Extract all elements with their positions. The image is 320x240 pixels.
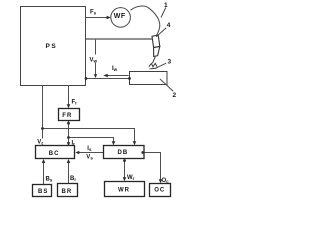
svg-text:BR: BR bbox=[62, 189, 73, 195]
junction dot Iw at workpiece bbox=[128, 77, 131, 80]
arrowhead Oc into OC bbox=[159, 179, 163, 183]
arrowhead Vw down bbox=[94, 74, 97, 78]
leader line 2 bbox=[160, 79, 173, 91]
box OC bbox=[150, 184, 171, 197]
wire Oc: DB to OC bbox=[144, 153, 161, 181]
svg-text:BS: BS bbox=[38, 189, 48, 195]
box BC bbox=[36, 146, 75, 159]
svg-text:Fr: Fr bbox=[72, 100, 78, 106]
svg-text:3: 3 bbox=[168, 59, 172, 66]
svg-text:DB: DB bbox=[118, 150, 129, 156]
svg-text:Vs: Vs bbox=[86, 154, 93, 160]
svg-text:Iw: Iw bbox=[112, 66, 118, 72]
wire feeder WF bbox=[111, 8, 131, 28]
svg-text:FR: FR bbox=[62, 113, 72, 119]
wire Wr: DB to WR bbox=[124, 159, 126, 179]
torch 4 bbox=[152, 35, 160, 57]
svg-text:Vw: Vw bbox=[90, 58, 98, 64]
leader line 3 bbox=[155, 63, 166, 68]
svg-text:Ir: Ir bbox=[72, 141, 76, 147]
signal label Vw bbox=[89, 55, 101, 64]
wire conduit from WF to torch bbox=[131, 6, 160, 37]
wire Vr from PS bottom to BC bbox=[42, 85, 44, 144]
electrode wire stub bbox=[152, 57, 155, 64]
wire Fr from PS bottom to FR bbox=[68, 85, 70, 105]
leader line 4 bbox=[156, 28, 166, 37]
bus upper: Vr to DB bbox=[43, 129, 135, 143]
svg-text:Oc: Oc bbox=[162, 178, 170, 184]
wire Fs: PS to WF bbox=[86, 17, 108, 19]
box DB bbox=[104, 146, 145, 159]
arrowhead Ir into BC bbox=[67, 142, 71, 146]
svg-text:2: 2 bbox=[173, 92, 177, 99]
svg-text:WR: WR bbox=[118, 188, 130, 194]
svg-text:Fs: Fs bbox=[90, 10, 97, 16]
junction dot Ir bus bbox=[67, 136, 70, 139]
arrowhead bus upper into DB bbox=[133, 141, 137, 145]
svg-text:Vr: Vr bbox=[37, 140, 43, 146]
wire Ir from FR to BC bbox=[68, 121, 70, 145]
svg-text:4: 4 bbox=[167, 22, 171, 29]
svg-text:1: 1 bbox=[164, 2, 168, 9]
junction dot Vr bus bbox=[41, 127, 44, 130]
signal label Vr bbox=[37, 139, 47, 146]
electrode voltage wire PS to torch bbox=[86, 38, 152, 40]
svg-text:BC: BC bbox=[49, 151, 60, 157]
current return wire Iw bbox=[86, 78, 130, 80]
arrowhead Iw direction left bbox=[103, 74, 108, 77]
junction dot Wr below DB bbox=[123, 159, 126, 162]
power source PS bbox=[21, 7, 86, 86]
bus lower: Ir to DB bbox=[69, 138, 114, 143]
box FR bbox=[59, 109, 80, 121]
box WR bbox=[105, 182, 145, 197]
Vw measure arrow bbox=[95, 40, 97, 75]
svg-text:Bs: Bs bbox=[46, 177, 53, 183]
box BR bbox=[58, 184, 78, 197]
junction dot Iw at PS bbox=[85, 77, 88, 80]
arc 3 bbox=[149, 63, 157, 66]
svg-text:PS: PS bbox=[46, 43, 58, 50]
svg-text:WF: WF bbox=[114, 13, 126, 20]
junction dot FR output top bbox=[67, 122, 70, 125]
leader line 1 bbox=[161, 8, 166, 18]
wire Br: BR to BC bbox=[68, 162, 70, 184]
workpiece 2 bbox=[130, 72, 168, 85]
arrowhead Wr into WR bbox=[123, 177, 127, 181]
arrowhead Fs into WF bbox=[107, 16, 111, 20]
svg-text:Is: Is bbox=[87, 146, 92, 152]
wire Is/Vs: DB to BC bbox=[78, 152, 103, 154]
arrowhead Br up into BC bbox=[67, 159, 71, 163]
arrowhead Vr into BC bbox=[41, 142, 45, 146]
box BS bbox=[33, 185, 52, 197]
Iw direction arrow tail bbox=[108, 75, 129, 77]
arrowhead Bs up into BC bbox=[42, 159, 46, 163]
wire Bs: BS to BC bbox=[43, 162, 45, 185]
arrowhead bus lower into DB bbox=[112, 141, 116, 145]
junction dot Oc at DB bbox=[141, 151, 144, 154]
svg-text:Wr: Wr bbox=[127, 175, 135, 181]
arrowhead Is/Vs into BC bbox=[75, 151, 79, 155]
svg-text:OC: OC bbox=[154, 188, 165, 194]
svg-text:Br: Br bbox=[70, 176, 76, 182]
arrowhead Fr into FR bbox=[67, 104, 71, 108]
